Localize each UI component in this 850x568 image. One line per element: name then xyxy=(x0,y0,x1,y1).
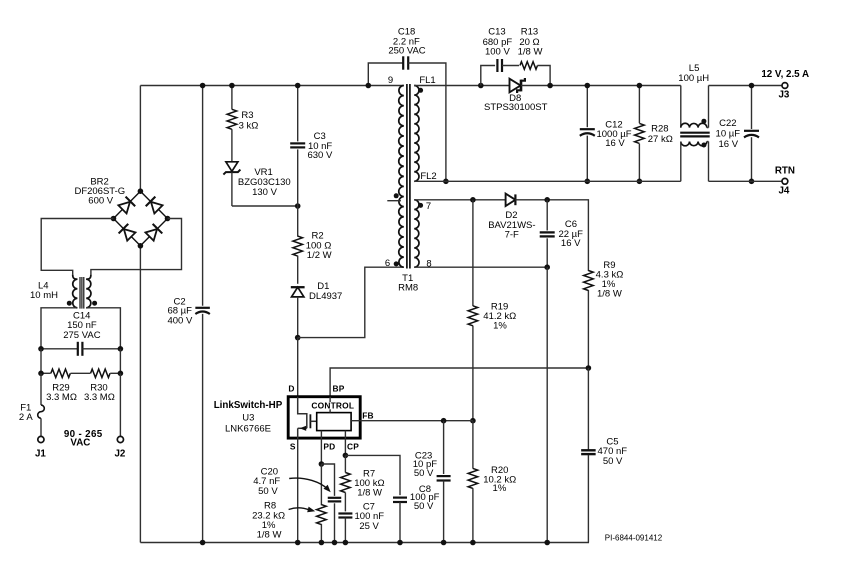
label C12 xyxy=(596,120,631,150)
svg-text:J2: J2 xyxy=(114,448,125,459)
phase dot FL1 xyxy=(418,88,423,93)
node R28 top xyxy=(637,83,643,89)
fuse F1 xyxy=(38,373,45,436)
svg-text:BP: BP xyxy=(332,384,344,394)
wire pin 8 run xyxy=(414,266,547,268)
label C20 xyxy=(253,466,280,497)
svg-text:630 V: 630 V xyxy=(307,150,332,161)
wire drain node to U3 D pin xyxy=(297,338,299,397)
node CP junction xyxy=(343,453,349,459)
node R30 right xyxy=(118,371,124,377)
inductor L4 common-mode choke xyxy=(73,275,91,309)
terminal J4 xyxy=(782,178,788,184)
svg-text:FL2: FL2 xyxy=(420,171,436,182)
svg-text:J4: J4 xyxy=(778,186,789,197)
svg-text:7: 7 xyxy=(426,201,431,212)
wire PD pin down xyxy=(320,438,322,464)
svg-text:100 µH: 100 µH xyxy=(678,73,709,84)
node snubber right xyxy=(547,83,553,89)
phase dot L4 right xyxy=(92,301,97,306)
node drain junction xyxy=(295,335,301,341)
IC U3 LinkSwitch-HP outline xyxy=(288,397,360,438)
svg-text:2 A: 2 A xyxy=(19,412,33,423)
phase dot L4 left xyxy=(67,301,72,306)
label R20 xyxy=(483,465,516,494)
node bridge right xyxy=(165,216,171,222)
svg-text:25 V: 25 V xyxy=(359,521,379,532)
svg-text:100 V: 100 V xyxy=(485,46,510,57)
node bridge left xyxy=(111,216,117,222)
node R29 left xyxy=(38,371,44,377)
svg-text:27 kΩ: 27 kΩ xyxy=(648,134,673,145)
label C23 xyxy=(413,451,437,479)
wire bottom primary-ground rail xyxy=(140,542,589,544)
U3 FB internal lead xyxy=(351,420,360,422)
wire bridge right to L4 top-right xyxy=(91,219,182,275)
label C3 xyxy=(307,131,332,161)
wire BP feed xyxy=(330,368,588,397)
phase dot pin 6 xyxy=(394,261,399,266)
svg-text:250 VAC: 250 VAC xyxy=(388,46,425,57)
svg-text:FB: FB xyxy=(362,411,374,421)
phase dot pin 7 xyxy=(418,203,423,208)
wire left column C14 to R29 row xyxy=(40,349,42,374)
svg-text:16 V: 16 V xyxy=(561,238,581,249)
label AC input xyxy=(64,429,103,449)
node R3 top xyxy=(229,83,235,89)
bridge rectifier BR2 xyxy=(114,191,168,246)
resistor R20 xyxy=(468,421,478,543)
svg-text:PI-6844-091412: PI-6844-091412 xyxy=(605,534,663,543)
node PD junction xyxy=(319,461,325,467)
phase dot L5 bottom xyxy=(701,143,706,148)
node C18 left xyxy=(366,83,372,89)
terminal J3 xyxy=(782,83,788,89)
label C18 xyxy=(388,26,425,56)
node C12 top xyxy=(585,83,591,89)
wire pin 7 to D2 xyxy=(414,199,505,201)
svg-text:J1: J1 xyxy=(35,448,46,459)
label R7 xyxy=(354,468,384,498)
capacitor C8 xyxy=(393,498,407,543)
wire L4 left bottom to left column xyxy=(41,308,77,349)
node FB-C23 xyxy=(441,418,447,424)
wire C6 node down to ground rail xyxy=(546,267,548,542)
svg-text:PD: PD xyxy=(323,442,335,452)
wire CP pin down xyxy=(344,438,346,455)
resistor R30 xyxy=(91,369,121,377)
svg-text:VAC: VAC xyxy=(70,438,90,449)
phase dot primary mid xyxy=(394,193,399,198)
node C7 ground xyxy=(343,540,349,546)
node FB-R19 xyxy=(470,418,476,424)
label R8 xyxy=(252,501,285,541)
node pin7-R19 xyxy=(470,197,476,203)
resistor R7 xyxy=(341,455,351,511)
label D8 xyxy=(484,93,548,113)
label BR2 xyxy=(74,176,125,206)
node C14 left xyxy=(38,346,44,352)
capacitor C14 xyxy=(41,342,120,356)
wire FL1 to D8 xyxy=(414,85,509,87)
node pin8-C6 xyxy=(544,264,550,270)
svg-text:12 V, 2.5 A: 12 V, 2.5 A xyxy=(761,69,809,80)
node R8 ground xyxy=(319,540,325,546)
svg-text:1%: 1% xyxy=(493,320,507,331)
svg-text:400 V: 400 V xyxy=(167,316,192,327)
svg-text:16 V: 16 V xyxy=(719,139,739,150)
wire D2 cathode to R9 top xyxy=(515,200,588,271)
wire left rail lower xyxy=(139,246,141,543)
wire VR1 to C3 node xyxy=(232,205,298,207)
label VR1 xyxy=(238,167,291,198)
svg-text:LNK6766E: LNK6766E xyxy=(225,423,271,434)
node C8 ground xyxy=(397,540,403,546)
label R13 xyxy=(518,27,543,58)
capacitor C6 xyxy=(540,200,555,267)
svg-text:1/8 W: 1/8 W xyxy=(518,46,543,57)
node bias ground xyxy=(544,540,550,546)
node C20 ground xyxy=(332,540,338,546)
label L5 xyxy=(678,63,709,84)
label R2 xyxy=(306,231,332,262)
label T1 xyxy=(398,273,418,294)
wire primary tap stub xyxy=(387,200,401,202)
wire right column C14 to R30 row xyxy=(119,349,121,374)
svg-text:6: 6 xyxy=(385,258,390,269)
node bridge bottom xyxy=(138,243,144,249)
capacitor C12 xyxy=(580,86,595,182)
svg-text:STPS30100ST: STPS30100ST xyxy=(484,102,548,113)
label F1 xyxy=(19,402,33,423)
label C5 xyxy=(598,436,628,467)
wire J2 lead xyxy=(119,373,121,436)
wire left rail upper xyxy=(139,86,141,192)
svg-text:D: D xyxy=(288,384,294,394)
pointer arrow C20 xyxy=(289,478,331,492)
transformer T1 primary winding xyxy=(399,86,404,268)
svg-text:RTN: RTN xyxy=(775,166,795,177)
pointer arrow R8 xyxy=(289,507,316,513)
phase dot L5 top xyxy=(701,119,706,124)
svg-text:10 mH: 10 mH xyxy=(30,290,58,301)
svg-text:1/8 W: 1/8 W xyxy=(257,530,282,541)
label R29 xyxy=(46,383,77,403)
capacitor C3 xyxy=(290,86,305,207)
capacitor C20 xyxy=(321,464,341,543)
wire FB feed xyxy=(360,420,473,422)
svg-text:1/2 W: 1/2 W xyxy=(307,250,332,261)
diode D1 xyxy=(291,287,305,337)
label C8 xyxy=(410,484,440,512)
svg-text:FL1: FL1 xyxy=(419,75,435,86)
svg-text:3.3 MΩ: 3.3 MΩ xyxy=(84,392,115,403)
svg-text:50 V: 50 V xyxy=(414,468,434,479)
svg-text:CONTROL: CONTROL xyxy=(311,401,354,411)
label C13 xyxy=(483,27,513,58)
svg-text:R13: R13 xyxy=(521,27,538,38)
label U3 xyxy=(214,400,283,435)
wire bridge left to L4 top-left xyxy=(41,219,113,275)
resistor R28 xyxy=(635,86,645,182)
U3 internal MOSFET xyxy=(298,397,317,438)
svg-text:C22: C22 xyxy=(719,118,736,129)
label C6 xyxy=(558,219,583,249)
node C14 right xyxy=(118,346,124,352)
node C12 bottom xyxy=(585,179,591,185)
wire drain node to T1 pin 6 xyxy=(298,267,404,337)
node C22 bottom xyxy=(749,179,755,185)
U3 PD internal lead xyxy=(320,431,322,439)
svg-text:9: 9 xyxy=(388,75,393,86)
wire S pin to ground xyxy=(297,438,299,542)
node VR1-R2 junction xyxy=(295,203,301,209)
svg-text:16 V: 16 V xyxy=(605,138,625,149)
label C22 xyxy=(716,118,741,150)
svg-text:50 V: 50 V xyxy=(414,501,434,512)
node R20 bottom xyxy=(470,540,476,546)
capacitor C7 xyxy=(338,514,352,543)
svg-text:R3: R3 xyxy=(241,110,253,121)
wire RTN rail right xyxy=(709,180,783,182)
resistor R8 xyxy=(317,464,327,543)
label D2 xyxy=(488,210,535,240)
node C22 top xyxy=(749,83,755,89)
diode D8 schottky xyxy=(510,78,525,93)
node BP-R9-C5 xyxy=(586,365,592,371)
svg-text:3 kΩ: 3 kΩ xyxy=(239,121,259,132)
node bridge top xyxy=(138,188,144,194)
svg-text:1%: 1% xyxy=(493,483,507,494)
label R9 xyxy=(596,260,624,300)
svg-text:R28: R28 xyxy=(651,124,668,135)
resistor R3 xyxy=(227,86,237,162)
capacitor C22 xyxy=(744,86,759,182)
transformer T1 core xyxy=(407,84,410,269)
U3 internal control block xyxy=(317,413,351,431)
node C6 top xyxy=(544,197,550,203)
wire L5 to J3 xyxy=(709,85,783,87)
node C2 bottom xyxy=(200,540,206,546)
label D1 xyxy=(309,281,342,302)
zener VR1 xyxy=(223,162,240,206)
svg-text:7-F: 7-F xyxy=(505,229,519,240)
svg-text:50 V: 50 V xyxy=(258,486,278,497)
wire RTN rail xyxy=(414,180,681,182)
label C14 xyxy=(63,310,100,340)
node C23 ground xyxy=(441,540,447,546)
resistor R2 xyxy=(293,206,303,284)
svg-text:J3: J3 xyxy=(778,90,789,101)
label R30 xyxy=(84,383,115,403)
terminal J1 xyxy=(38,436,44,442)
svg-text:3.3 MΩ: 3.3 MΩ xyxy=(46,392,77,403)
node C3 top xyxy=(295,83,301,89)
resistor R19 xyxy=(468,200,478,421)
label C2 xyxy=(167,296,193,326)
node snubber left xyxy=(478,83,484,89)
label L4 xyxy=(30,281,58,301)
label R19 xyxy=(483,301,516,331)
terminal J2 xyxy=(117,436,123,442)
resistor R9 xyxy=(584,271,594,369)
transformer T1 bias winding 7-8 xyxy=(414,200,419,267)
node C18 right xyxy=(443,179,449,185)
wire top primary rail xyxy=(140,85,403,87)
svg-text:C13: C13 xyxy=(488,27,505,38)
svg-text:DL4937: DL4937 xyxy=(309,291,342,302)
svg-text:LinkSwitch-HP: LinkSwitch-HP xyxy=(214,400,283,411)
U3 BP internal lead xyxy=(329,397,331,413)
label R3 xyxy=(239,110,259,132)
node R28 bottom xyxy=(637,179,643,185)
svg-text:U3: U3 xyxy=(242,412,254,423)
capacitor C18 xyxy=(368,56,446,181)
svg-text:RM8: RM8 xyxy=(398,283,418,294)
diode D2 xyxy=(506,194,516,206)
capacitor C23 xyxy=(437,421,451,543)
capacitor C5 xyxy=(581,368,596,543)
svg-text:600 V: 600 V xyxy=(88,196,113,207)
svg-text:275 VAC: 275 VAC xyxy=(63,330,100,341)
label R28 xyxy=(648,124,673,145)
wire L4 right bottom to right column xyxy=(86,308,120,349)
svg-text:1/8 W: 1/8 W xyxy=(357,488,382,499)
label C7 xyxy=(355,501,385,532)
svg-text:130 V: 130 V xyxy=(252,187,277,198)
svg-text:S: S xyxy=(290,442,296,452)
U3 CP internal lead xyxy=(344,431,346,439)
node C2 top xyxy=(200,83,206,89)
capacitor C13 with resistor R13 snubber xyxy=(481,59,550,86)
node S ground xyxy=(295,540,301,546)
svg-text:50 V: 50 V xyxy=(603,456,623,467)
svg-text:1/8 W: 1/8 W xyxy=(597,289,622,300)
transformer T1 secondary winding FL1-FL2 xyxy=(414,86,419,182)
inductor L5 xyxy=(680,86,710,182)
wire D8 cathode to output xyxy=(521,85,681,87)
wire CP to C8 branch xyxy=(345,455,400,495)
resistor R29 xyxy=(41,369,90,377)
capacitor C2 xyxy=(195,86,210,543)
svg-text:CP: CP xyxy=(347,442,359,452)
